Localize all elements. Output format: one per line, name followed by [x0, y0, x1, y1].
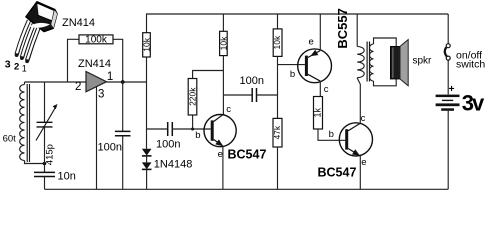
wire output node down to C2 — [122, 82, 124, 131]
wire D2 to ground rail — [146, 169, 148, 189]
wire top supply rail — [146, 13, 448, 15]
svg-text:220k: 220k — [187, 87, 197, 106]
wire Q1 emitter to ground — [222, 147, 224, 190]
svg-text:100n: 100n — [156, 138, 180, 150]
svg-text:3: 3 — [98, 89, 104, 101]
transistor Q2 BC557 — [298, 49, 332, 83]
transistor package TO-92 body — [26, 2, 57, 32]
wire node to C3 — [147, 128, 168, 130]
svg-text:60t: 60t — [3, 133, 17, 144]
svg-text:10k: 10k — [218, 36, 228, 50]
svg-text:b: b — [290, 69, 295, 80]
wire base node to Q2 base — [278, 64, 305, 66]
wire 220k bottom stub — [192, 115, 194, 129]
svg-text:10n: 10n — [58, 171, 76, 183]
svg-text:10k: 10k — [142, 37, 152, 51]
wire R7 to Q3 base — [318, 129, 345, 140]
inductor L1 60t antenna coil — [20, 85, 25, 161]
svg-text:+: + — [449, 84, 455, 95]
svg-text:100n: 100n — [240, 75, 264, 87]
svg-text:b: b — [329, 129, 334, 140]
svg-text:47k: 47k — [272, 125, 282, 139]
svg-text:b: b — [195, 130, 200, 141]
node 220k base junction — [191, 128, 194, 131]
wire 10n to ground rail — [44, 177, 46, 190]
resistor R1 100k — [79, 35, 113, 44]
svg-text:1N4148: 1N4148 — [154, 159, 193, 171]
svg-text:2: 2 — [75, 81, 81, 93]
wire rail to R4 — [222, 14, 224, 31]
VC1 adjustment arrow — [36, 107, 56, 141]
wire ZN414 output — [107, 81, 147, 83]
svg-text:1: 1 — [107, 71, 113, 83]
wire Q3 collector up to transformer — [357, 78, 360, 123]
svg-text:3v: 3v — [462, 91, 485, 116]
wire tank top / input to ZN414 pin 2 — [25, 81, 87, 83]
transformer T1 secondary loop — [374, 38, 397, 86]
resistor R5 10k — [273, 29, 282, 57]
svg-text:switch: switch — [456, 59, 485, 71]
capacitor C2 100n plates — [115, 131, 131, 135]
svg-text:10k: 10k — [272, 35, 282, 49]
svg-text:e: e — [361, 157, 366, 168]
diode D2 1N4148 — [142, 162, 152, 169]
capacitor C3 100n plates — [168, 122, 173, 136]
wire Q2 collector to R7 — [319, 81, 321, 97]
svg-text:e: e — [309, 36, 314, 47]
node output junction — [121, 80, 125, 84]
svg-text:BC547: BC547 — [228, 148, 267, 162]
transformer T1 core — [367, 42, 369, 82]
variable capacitor VC1 415p plates — [37, 122, 53, 127]
wire 100k left leg — [68, 39, 80, 82]
wire R2 bottom node line — [146, 57, 148, 149]
capacitor C4 100n plates — [252, 88, 256, 102]
wire C4 to BC557 base node — [257, 94, 278, 96]
transformer T1 primary winding — [357, 47, 364, 78]
transistor Q3 BC547 — [339, 123, 372, 156]
svg-text:1: 1 — [22, 64, 27, 74]
svg-text:c: c — [226, 104, 231, 115]
svg-text:BC557: BC557 — [335, 8, 350, 48]
node tank bottom junction — [43, 162, 47, 166]
wire C3 to Q1 base — [172, 128, 211, 130]
svg-text:spkr: spkr — [413, 55, 433, 66]
wire rail to R2 — [146, 14, 148, 33]
wire variable capacitor bottom — [44, 127, 46, 164]
svg-text:100n: 100n — [98, 141, 122, 153]
svg-text:100k: 100k — [85, 34, 108, 45]
resistor R7 1k — [314, 97, 323, 130]
svg-text:ZN414: ZN414 — [62, 17, 95, 29]
svg-text:BC547: BC547 — [318, 165, 357, 179]
svg-text:2: 2 — [14, 62, 19, 73]
transistor package TO-92 legs — [15, 21, 39, 64]
svg-text:e: e — [218, 149, 223, 160]
wire R4 to Q1 collector — [222, 56, 224, 115]
resistor R6 47k — [273, 118, 282, 147]
resistor R4 10k — [220, 31, 228, 55]
wire 220k top to collector line — [193, 71, 224, 79]
switch S1 on/off — [446, 44, 450, 48]
wire to 10n — [44, 164, 46, 173]
wire battery to bottom rail — [447, 111, 449, 190]
wire bottom ground rail — [45, 188, 449, 190]
wire Q2 emitter to rail — [319, 14, 321, 50]
ferrite rod of L1 — [27, 84, 29, 162]
svg-text:c: c — [324, 84, 329, 95]
wire rail to transformer primary — [356, 14, 358, 47]
svg-text:3: 3 — [5, 59, 11, 71]
svg-text:415p: 415p — [45, 144, 56, 165]
wire rail to R5 — [277, 14, 279, 29]
speaker LS1 driver — [390, 46, 400, 79]
wire switch to battery — [447, 60, 449, 94]
speaker LS1 cone — [400, 40, 408, 86]
svg-text:ZN414: ZN414 — [78, 58, 111, 70]
resistor R2 10k — [143, 33, 151, 57]
wire variable capacitor top — [44, 82, 46, 122]
svg-text:1k: 1k — [313, 107, 323, 117]
wire right rail down to switch — [447, 14, 449, 44]
wire coil stubs — [25, 82, 45, 164]
wire 100k right leg — [113, 39, 123, 82]
wire Q3 emitter to ground — [359, 156, 361, 190]
transformer T1 secondary winding — [370, 44, 374, 81]
wire between diodes — [146, 156, 148, 163]
wire Q1 collector to C4 — [223, 94, 252, 96]
diode D1 1N4148 — [142, 149, 152, 156]
resistor R3 220k — [188, 79, 197, 116]
wire R5 bottom node line — [277, 56, 279, 118]
op-amp U1 ZN414 — [86, 72, 107, 92]
wire C2 to ground rail — [122, 136, 124, 190]
svg-text:c: c — [361, 113, 366, 124]
wire ZN414 pin 3 to ground — [96, 87, 98, 189]
wire 47k to ground rail — [277, 147, 279, 189]
transistor Q1 BC547 — [204, 115, 236, 147]
capacitor C1 10n plates — [34, 172, 55, 176]
